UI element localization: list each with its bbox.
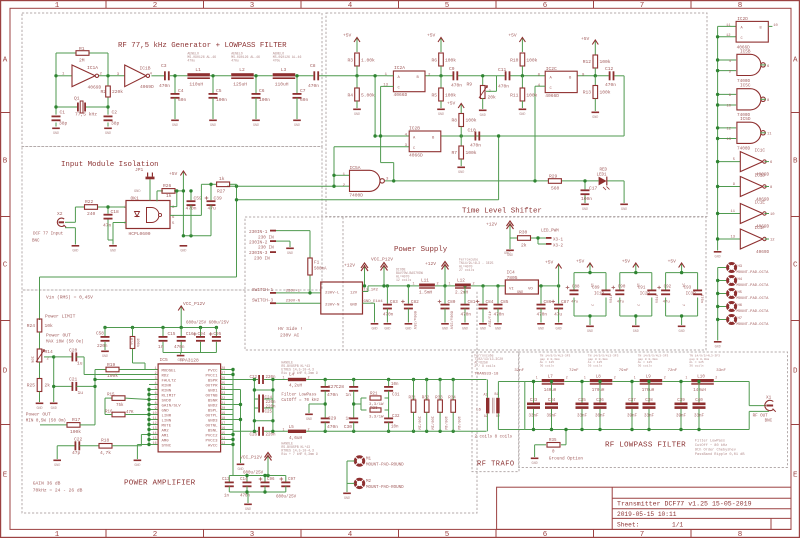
svg-text:B: B xyxy=(793,158,798,166)
inductor L4 xyxy=(281,361,317,389)
svg-text:R16: R16 xyxy=(105,411,113,415)
section box RF Trafo xyxy=(472,352,519,472)
title block text sheet xyxy=(617,522,683,529)
amplifier IC5 TDA8932 xyxy=(153,357,226,452)
svg-text:C85: C85 xyxy=(501,300,509,305)
svg-text:F1: F1 xyxy=(314,261,320,266)
svg-text:600u/25V 600u/25V: 600u/25V 600u/25V xyxy=(186,321,229,326)
svg-text:GND: GND xyxy=(582,208,588,212)
svg-text:4,7k: 4,7k xyxy=(100,450,111,456)
svg-text:5: 5 xyxy=(155,386,157,390)
svg-text:33nF: 33nF xyxy=(694,415,705,419)
svg-text:7: 7 xyxy=(589,304,593,306)
svg-text:C22: C22 xyxy=(74,437,83,443)
svg-text:6: 6 xyxy=(543,2,548,10)
svg-text:L9: L9 xyxy=(646,376,652,380)
svg-text:R8: R8 xyxy=(451,118,457,124)
svg-text:470n: 470n xyxy=(605,82,616,88)
capacitor C9 xyxy=(449,66,462,89)
junction dot C6 xyxy=(254,74,257,77)
svg-text:R10: R10 xyxy=(510,58,519,64)
svg-text:R1: R1 xyxy=(79,46,85,52)
section box Time Level Shifter xyxy=(326,13,707,217)
svg-text:L3: L3 xyxy=(281,67,287,73)
ground under R7 xyxy=(457,167,465,169)
svg-text:77,5 kHz: 77,5 kHz xyxy=(75,112,97,118)
voltage regulator IC4 xyxy=(504,252,538,295)
svg-text:CutOff = 70 kHz: CutOff = 70 kHz xyxy=(281,398,319,403)
svg-text:X2: X2 xyxy=(57,211,63,217)
capacitor C31 xyxy=(384,380,400,399)
svg-text:VCC_P12V: VCC_P12V xyxy=(240,455,262,461)
inverter IC1F spare xyxy=(730,226,775,255)
svg-text:L8: L8 xyxy=(596,376,602,380)
svg-text:C4: C4 xyxy=(178,88,184,94)
svg-text:R25: R25 xyxy=(27,383,36,389)
op-amp IC1A inverter xyxy=(62,65,103,91)
svg-text:33nF: 33nF xyxy=(528,415,539,419)
svg-text:2: 2 xyxy=(308,377,310,381)
section box RF generator xyxy=(22,13,322,147)
svg-text:R14: R14 xyxy=(45,349,54,355)
svg-text:12: 12 xyxy=(770,239,775,243)
ground under C87 xyxy=(555,323,563,325)
svg-text:470u: 470u xyxy=(231,59,239,63)
analog switch IC2D spare xyxy=(726,17,779,50)
svg-text:C84: C84 xyxy=(486,300,494,305)
svg-text:1.00k: 1.00k xyxy=(361,58,375,64)
svg-text:Power Supply: Power Supply xyxy=(394,246,448,254)
capacitor C37 xyxy=(626,380,639,431)
wire: OK1 output to R27 xyxy=(170,183,237,216)
mount pad M2 xyxy=(355,479,404,490)
mount pad M1 xyxy=(355,457,404,468)
svg-text:C1: C1 xyxy=(60,110,66,116)
svg-text:230V AC: 230V AC xyxy=(280,333,300,339)
svg-text:AVCC: AVCC xyxy=(208,444,218,448)
svg-text:+5V: +5V xyxy=(668,259,677,265)
svg-text:H4: H4 xyxy=(738,278,743,282)
resistor R35 ground option xyxy=(535,428,568,457)
svg-text:9th Order Chebyshev: 9th Order Chebyshev xyxy=(695,448,737,453)
capacitor C14 xyxy=(240,476,252,499)
resistor R7 xyxy=(451,136,476,166)
svg-text:R7: R7 xyxy=(451,150,457,156)
svg-text:LED_PWM: LED_PWM xyxy=(541,230,559,234)
wire: spare gate bus xyxy=(716,26,740,250)
svg-text:R5: R5 xyxy=(431,93,437,99)
svg-text:IC5D: IC5D xyxy=(740,117,751,122)
capacitor C35 xyxy=(576,380,589,431)
svg-text:L7: L7 xyxy=(548,376,554,380)
svg-text:5: 5 xyxy=(445,2,450,10)
resistor R11 xyxy=(510,76,538,108)
svg-text:GND: GND xyxy=(587,330,593,334)
svg-text:MAX 10W (50 Oe): MAX 10W (50 Oe) xyxy=(46,340,84,345)
resistor R8 xyxy=(447,101,477,137)
ground under C80 xyxy=(441,323,449,325)
svg-text:Filter LowPass: Filter LowPass xyxy=(695,439,725,444)
svg-text:GND: GND xyxy=(480,327,486,331)
svg-text:IC2C: IC2C xyxy=(546,66,557,72)
svg-text:R24: R24 xyxy=(27,323,36,329)
svg-text:R33: R33 xyxy=(435,397,443,401)
capacitor C25 xyxy=(258,404,276,415)
svg-text:DCF 77 Input: DCF 77 Input xyxy=(33,233,64,237)
svg-text:GND: GND xyxy=(287,252,293,256)
wire: R26 pullup net xyxy=(157,180,211,238)
frame row ticks left and right xyxy=(1,113,800,425)
title block box xyxy=(497,487,791,529)
svg-text:230 IN: 230 IN xyxy=(254,257,270,262)
svg-text:C26: C26 xyxy=(249,433,257,437)
svg-text:X1: X1 xyxy=(766,396,772,401)
svg-text:+5V: +5V xyxy=(622,259,631,265)
svg-text:GND: GND xyxy=(53,132,59,136)
svg-text:1u: 1u xyxy=(78,390,84,396)
svg-text:16: 16 xyxy=(153,441,157,445)
svg-text:2: 2 xyxy=(566,376,568,380)
wire: mount pads ground xyxy=(347,461,355,492)
info text filter lowpass 70kHz xyxy=(281,393,319,404)
ic power block IC3P xyxy=(666,259,698,326)
svg-text:600u/25V: 600u/25V xyxy=(276,495,297,500)
svg-text:100k: 100k xyxy=(135,338,140,348)
wire: main oscillator signal xyxy=(56,75,387,77)
capacitor C13 xyxy=(222,476,234,499)
capacitor C38 xyxy=(643,380,656,431)
capacitor C4 xyxy=(171,76,187,119)
svg-text:1: 1 xyxy=(536,376,538,380)
svg-text:100k: 100k xyxy=(466,150,477,156)
svg-text:H3: H3 xyxy=(738,265,743,269)
wire: crystal branch xyxy=(56,76,108,127)
svg-text:10: 10 xyxy=(773,24,778,28)
svg-text:470u: 470u xyxy=(273,59,281,63)
svg-text:GND: GND xyxy=(715,255,721,259)
svg-text:470n: 470n xyxy=(451,83,462,89)
svg-text:1: 1 xyxy=(634,376,636,380)
svg-text:GND: GND xyxy=(371,327,377,331)
ground mount pad octa xyxy=(714,341,722,343)
svg-text:GND: GND xyxy=(36,407,42,411)
svg-text:36 coils: 36 coils xyxy=(689,363,704,367)
svg-text:GND: GND xyxy=(105,132,111,136)
capacitor C39 xyxy=(675,380,688,431)
svg-text:C82: C82 xyxy=(411,300,419,305)
svg-text:Sheet:: Sheet: xyxy=(617,522,639,529)
svg-text:R17: R17 xyxy=(72,417,81,423)
svg-text:1k: 1k xyxy=(166,193,172,199)
svg-text:GND: GND xyxy=(504,252,510,256)
inductor L7 xyxy=(536,354,571,394)
supply arrow +5V over R6 xyxy=(427,33,444,53)
ground under IC2P xyxy=(632,326,640,328)
transformer L6 RF xyxy=(476,392,500,418)
svg-text:C12: C12 xyxy=(605,66,614,72)
svg-text:C59: C59 xyxy=(194,196,203,202)
inductor L8 xyxy=(584,354,619,394)
svg-text:100/1W: 100/1W xyxy=(443,416,448,430)
resistor R24 xyxy=(27,319,53,349)
svg-text:GND: GND xyxy=(102,355,108,359)
svg-text:L11: L11 xyxy=(421,279,429,284)
svg-text:R12: R12 xyxy=(583,59,592,65)
svg-text:1: 1 xyxy=(155,366,157,370)
svg-text:C32: C32 xyxy=(392,415,400,419)
svg-text:BSNR: BSNR xyxy=(208,399,218,403)
frame column ticks top and bottom xyxy=(106,1,691,538)
resistor R4 xyxy=(347,76,375,108)
svg-text:R21: R21 xyxy=(370,393,378,397)
svg-text:7: 7 xyxy=(681,304,685,306)
svg-text:L6: L6 xyxy=(476,409,481,413)
capacitor C2 xyxy=(104,110,120,127)
capacitor C26 xyxy=(249,427,276,438)
ground under R5 xyxy=(437,109,445,111)
svg-text:A: A xyxy=(793,57,798,65)
svg-text:C18: C18 xyxy=(111,209,120,215)
resistor R6 xyxy=(431,53,456,78)
svg-text:RINR: RINR xyxy=(162,384,172,388)
ground IC5 analog xyxy=(134,445,149,468)
svg-text:C33: C33 xyxy=(530,399,538,403)
ground under C1 xyxy=(52,128,60,130)
svg-text:BNC: BNC xyxy=(32,240,40,244)
svg-text:220k: 220k xyxy=(112,89,123,95)
svg-text:+5V: +5V xyxy=(169,171,178,177)
svg-text:TRANS33-18: TRANS33-18 xyxy=(474,373,499,377)
svg-text:GND: GND xyxy=(110,249,116,253)
svg-text:+5V: +5V xyxy=(581,36,590,42)
svg-text:R18: R18 xyxy=(101,438,110,444)
svg-text:C5: C5 xyxy=(216,88,222,94)
svg-text:C91: C91 xyxy=(638,287,646,291)
svg-text:15: 15 xyxy=(153,436,157,440)
capacitor C27 xyxy=(321,380,339,405)
svg-text:170uH: 170uH xyxy=(592,389,605,393)
capacitor C28 xyxy=(336,380,358,405)
capacitor C30 xyxy=(344,404,358,431)
capacitor C96 electrolytic xyxy=(259,476,275,493)
svg-text:C29: C29 xyxy=(328,416,337,422)
svg-text:GAIN 36 dB: GAIN 36 dB xyxy=(33,481,61,487)
ground under C4 xyxy=(171,120,179,122)
svg-text:A: A xyxy=(3,57,8,65)
svg-text:3,3/1W: 3,3/1W xyxy=(369,415,384,420)
ground mount pads xyxy=(343,493,351,495)
resistor R13 xyxy=(583,76,611,111)
svg-text:RD2: RD2 xyxy=(162,374,170,378)
svg-text:140uH: 140uH xyxy=(693,389,706,393)
svg-text:4: 4 xyxy=(155,381,157,385)
svg-text:1.5mH: 1.5mH xyxy=(419,291,433,296)
svg-text:MOUNT-PAD-ROUND: MOUNT-PAD-ROUND xyxy=(366,486,404,490)
capacitor C91 xyxy=(638,287,658,304)
svg-text:C37: C37 xyxy=(628,399,636,403)
svg-text:470n: 470n xyxy=(653,294,657,303)
supply arrow +5V after regulator xyxy=(545,260,562,286)
svg-text:Transmitter DCF77 v1.25 15-05-: Transmitter DCF77 v1.25 15-05-2019 xyxy=(617,501,752,508)
svg-text:8: 8 xyxy=(155,401,157,405)
svg-text:C58: C58 xyxy=(96,332,104,337)
svg-text:L12: L12 xyxy=(457,279,465,284)
svg-text:L1: L1 xyxy=(195,67,201,73)
svg-text:RF LOWPASS FILTER: RF LOWPASS FILTER xyxy=(605,442,686,450)
svg-text:2: 2 xyxy=(153,2,158,10)
svg-text:10: 10 xyxy=(770,213,775,217)
capacitor C22 output xyxy=(249,375,276,384)
svg-text:12: 12 xyxy=(726,34,731,38)
wire: long control return xyxy=(40,186,499,320)
capacitor C18 xyxy=(103,205,119,240)
capacitor C40 xyxy=(693,380,706,431)
wire: vcc decoupling rails xyxy=(229,474,285,503)
svg-text:2: 2 xyxy=(664,376,666,380)
svg-text:11: 11 xyxy=(153,416,157,420)
svg-text:C15: C15 xyxy=(168,332,176,337)
ground under C81 xyxy=(461,323,469,325)
capacitor C89 xyxy=(592,287,612,304)
capacitor C21 xyxy=(52,377,158,397)
svg-text:C92: C92 xyxy=(664,286,672,290)
svg-text:470n: 470n xyxy=(537,313,548,318)
svg-text:5.00k: 5.00k xyxy=(361,93,375,99)
capacitor C33 xyxy=(527,380,540,431)
pin 230IN-1 xyxy=(249,230,276,241)
ground under R25 xyxy=(36,403,44,405)
svg-text:R23: R23 xyxy=(370,407,378,411)
svg-text:GND: GND xyxy=(253,124,259,128)
svg-text:39nF: 39nF xyxy=(676,415,687,419)
svg-text:IC4: IC4 xyxy=(507,270,516,276)
svg-text:X3-1: X3-1 xyxy=(553,239,564,243)
svg-text:C93: C93 xyxy=(684,287,692,291)
svg-text:10: 10 xyxy=(726,105,731,109)
svg-text:R2: R2 xyxy=(100,89,106,95)
svg-text:C11: C11 xyxy=(498,67,507,73)
info text Power OUT min xyxy=(26,412,66,424)
mount pad H3 xyxy=(728,264,770,276)
optocoupler OK1 xyxy=(124,196,175,238)
nand gate IC5A xyxy=(343,165,389,199)
svg-text:GND: GND xyxy=(679,330,685,334)
svg-text:38p: 38p xyxy=(111,121,120,127)
svg-text:10k: 10k xyxy=(30,356,35,364)
ground IC5 power xyxy=(237,464,245,466)
svg-text:AM2: AM2 xyxy=(162,429,170,433)
inductor L5 xyxy=(281,426,317,456)
svg-text:470n: 470n xyxy=(494,313,505,318)
svg-text:GND: GND xyxy=(519,113,525,117)
svg-text:7: 7 xyxy=(635,304,639,306)
svg-text:470n: 470n xyxy=(308,83,319,89)
svg-text:C87: C87 xyxy=(561,300,569,305)
svg-text:H5: H5 xyxy=(738,291,743,295)
svg-text:GND: GND xyxy=(621,208,627,212)
svg-text:HCPL0600: HCPL0600 xyxy=(129,231,151,237)
svg-text:GND: GND xyxy=(532,462,538,466)
svg-text:100n: 100n xyxy=(581,196,592,202)
svg-text:13: 13 xyxy=(153,426,157,430)
pin X3-2 xyxy=(546,243,564,249)
capacitor C90 electrolytic xyxy=(612,286,626,305)
svg-text:GND3: GND3 xyxy=(208,419,218,423)
svg-text:RINN: RINN xyxy=(162,389,172,393)
capacitor C12 xyxy=(605,66,616,88)
svg-text:RF OUT: RF OUT xyxy=(753,414,769,418)
svg-text:1: 1 xyxy=(55,2,60,10)
svg-text:Riu = 9 kHF 0,3mm 9: Riu = 9 kHF 0,3mm 9 xyxy=(281,371,317,375)
wire: filter rails xyxy=(306,378,487,433)
svg-text:GAIN/SLV: GAIN/SLV xyxy=(162,403,182,408)
resistor R3 xyxy=(347,53,375,78)
svg-text:MOUNT-PAD-OCTA: MOUNT-PAD-OCTA xyxy=(737,297,770,301)
svg-text:IC1B: IC1B xyxy=(140,66,151,72)
svg-text:OUTNL: OUTNL xyxy=(205,424,218,428)
svg-text:GND: GND xyxy=(384,327,390,331)
ground under C83 xyxy=(384,323,392,325)
svg-text:GND: GND xyxy=(462,327,468,331)
svg-text:GND: GND xyxy=(172,124,178,128)
svg-text:3: 3 xyxy=(155,376,157,380)
svg-text:100n: 100n xyxy=(259,97,270,103)
svg-text:GND: GND xyxy=(344,497,350,501)
capacitor C39 electrolytic xyxy=(205,184,222,236)
wire: lowpass bottom rail xyxy=(525,411,769,429)
svg-text:1k: 1k xyxy=(219,176,225,182)
svg-text:GND: GND xyxy=(480,114,486,118)
capacitor C92 electrolytic xyxy=(657,286,671,305)
svg-text:C40: C40 xyxy=(695,399,703,403)
svg-text:VI: VI xyxy=(509,288,514,292)
svg-text:LED1: LED1 xyxy=(597,174,608,178)
capacitor C5 xyxy=(209,76,228,119)
ground under C5 xyxy=(209,120,217,122)
resistor R1 xyxy=(76,46,89,64)
svg-text:39nF: 39nF xyxy=(546,415,557,419)
svg-text:110uH: 110uH xyxy=(189,82,203,88)
svg-text:+5V: +5V xyxy=(508,33,517,39)
ground under LED_PWM xyxy=(506,250,514,252)
svg-text:R4: R4 xyxy=(347,93,353,99)
svg-text:R6: R6 xyxy=(431,58,437,64)
svg-text:2: 2 xyxy=(437,283,439,287)
svg-text:36 coils: 36 coils xyxy=(540,363,555,367)
jumper JP1 xyxy=(134,167,155,201)
svg-text:470n: 470n xyxy=(327,392,338,398)
svg-text:C81: C81 xyxy=(468,300,476,305)
supply arrow VCC_P12V amp top xyxy=(178,301,205,328)
svg-text:C35: C35 xyxy=(578,399,586,403)
svg-text:C89: C89 xyxy=(592,287,600,291)
svg-text:+12V: +12V xyxy=(425,261,436,267)
svg-text:220n: 220n xyxy=(266,401,277,405)
svg-text:BNC: BNC xyxy=(765,420,773,424)
crystal Q1 xyxy=(74,96,97,118)
resistor R29 xyxy=(548,173,561,191)
svg-text:560: 560 xyxy=(551,186,560,192)
svg-text:R20: R20 xyxy=(128,338,132,346)
capacitor C32 xyxy=(384,410,400,431)
capacitor C8 xyxy=(308,63,319,89)
capacitor C6 xyxy=(252,76,271,119)
svg-text:C24: C24 xyxy=(265,396,273,400)
svg-text:72nF: 72nF xyxy=(668,369,678,373)
svg-text:12: 12 xyxy=(726,128,731,132)
info text chebyshev xyxy=(695,439,745,458)
svg-text:POWER AMPLIFIER: POWER AMPLIFIER xyxy=(124,480,196,488)
